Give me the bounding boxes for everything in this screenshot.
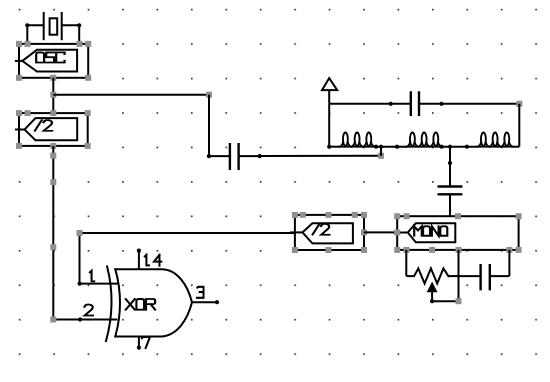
wire MONO center down <box>458 250 460 301</box>
xor pin 3 <box>192 300 219 304</box>
pin label 7 <box>142 337 150 348</box>
wire antenna node to C2 <box>329 103 411 105</box>
wire end handle right node <box>516 101 522 107</box>
label /2 (U2) <box>35 120 52 131</box>
capacitor C3 <box>438 187 463 195</box>
inductor L2 <box>406 133 444 149</box>
wire L1 to L2 <box>375 145 407 149</box>
inductor L3 <box>477 133 514 147</box>
xor pin 2 <box>78 317 82 321</box>
wire U3 to MONO <box>364 231 397 233</box>
wire MONO to C4 right <box>508 250 510 276</box>
wire L2 to L3 <box>442 145 478 149</box>
resistor R1 (trimmer) <box>414 268 448 283</box>
capacitor C2 <box>389 91 444 116</box>
divider block /2 U2 <box>15 113 88 146</box>
xor pin 14 <box>137 249 141 270</box>
wire branch corner handle <box>206 92 212 98</box>
wire C2 to right node <box>419 103 519 105</box>
capacitor C1 <box>207 143 262 170</box>
node branch junction <box>50 92 56 98</box>
wiper arrow of R1 <box>428 284 436 304</box>
selection handles /2 U2 <box>16 110 91 149</box>
wire XOR pin1 node to U3 <box>80 233 295 284</box>
pin label 3 <box>197 287 204 298</box>
junction L2-L3 node <box>448 145 452 149</box>
capacitor C4 <box>459 264 510 290</box>
stub into coil baseline <box>380 147 382 156</box>
wire OSC output to divider <box>52 78 54 113</box>
wire antenna node down <box>328 104 330 147</box>
selection handles MONO <box>394 213 521 253</box>
xor pin 1 <box>78 282 82 286</box>
monostable block MONO U4 <box>393 216 519 250</box>
wire branch to C1 (horizontal) <box>53 94 209 96</box>
wire end handle at filter <box>378 153 384 159</box>
wire corner handle <box>77 230 83 236</box>
wire MONO to R1 left <box>406 250 414 276</box>
antenna E1 <box>322 78 337 104</box>
wire R1 to center node <box>448 275 458 277</box>
wire wiper to center node <box>432 300 458 302</box>
divider block /2 U3 <box>290 215 364 250</box>
junction L1-L2 node <box>379 145 383 149</box>
wire down to C1 <box>208 95 210 156</box>
pin label 14 <box>145 255 162 266</box>
wire filter node down to C3 <box>448 147 452 187</box>
wire C3 to MONO <box>449 194 451 216</box>
label MONO <box>414 226 447 235</box>
wire right node down <box>518 104 520 147</box>
wire end handle below <box>456 298 462 304</box>
oscillator block OSC U1 <box>15 44 88 78</box>
xor gate U5 body <box>106 267 192 342</box>
wire L3 to right node <box>513 146 520 148</box>
selection handles OSC <box>16 41 91 81</box>
wire segment handles (left vertical) <box>50 153 56 323</box>
pin label 1 <box>90 271 94 282</box>
label OSC <box>36 52 64 62</box>
wire coil baseline left <box>327 145 339 149</box>
xor pin 7 <box>137 337 141 350</box>
inductor L1 <box>339 133 379 149</box>
wire C1 to filter node <box>260 155 381 157</box>
wire /2 output down to XOR pin 2 <box>53 146 117 320</box>
selection handles /2 U3 <box>292 212 367 253</box>
pin label 2 <box>84 305 92 316</box>
crystal Y1 <box>25 12 81 44</box>
label XOR <box>126 299 155 310</box>
label /2 (U3) <box>313 224 330 235</box>
